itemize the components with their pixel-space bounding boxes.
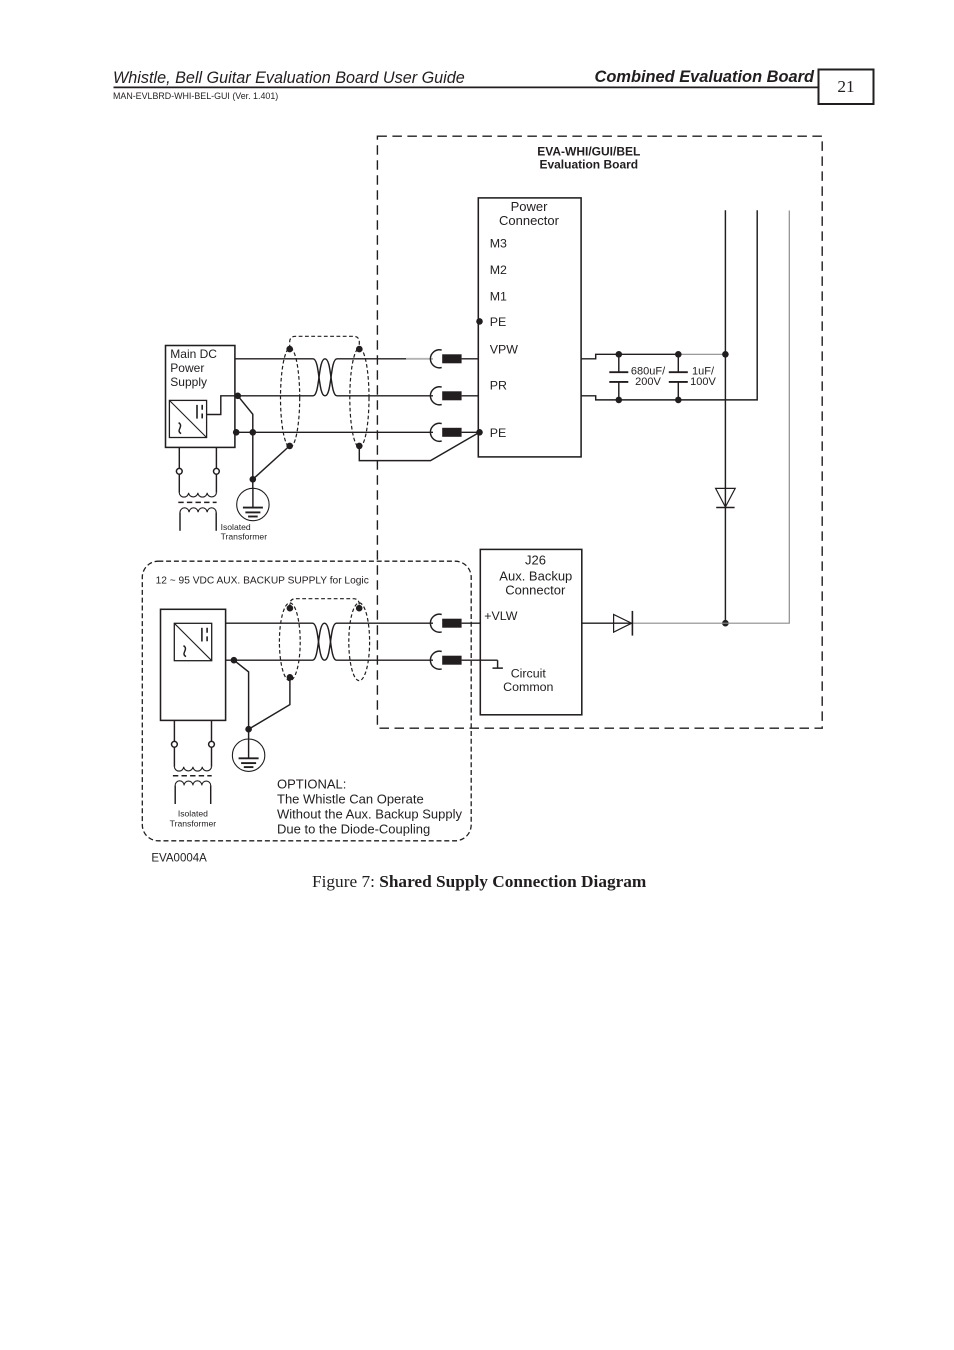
wire PE [235, 431, 480, 433]
cable shield left oval aux [279, 603, 300, 681]
pin +VLW [484, 609, 517, 623]
ferrite clamp +VLW [430, 614, 461, 632]
svg-text:Evaluation Board: Evaluation Board [539, 158, 638, 172]
aux backup label [156, 575, 369, 586]
svg-text:21: 21 [837, 77, 854, 96]
protective earth symbol main [237, 488, 269, 520]
capacitor C1 value [631, 365, 666, 388]
ferrite clamp VPW [430, 350, 461, 368]
page number [837, 77, 854, 96]
svg-text:Transformer: Transformer [170, 818, 217, 828]
optional note [277, 777, 462, 837]
svg-text:Common: Common [503, 680, 553, 694]
protective earth symbol aux [232, 739, 264, 772]
circuit common label [503, 667, 553, 695]
svg-text:Figure 7: Shared Supply Connec: Figure 7: Shared Supply Connection Diagr… [312, 872, 647, 891]
svg-text:200V: 200V [635, 376, 661, 388]
svg-text:Main DC: Main DC [170, 347, 217, 361]
ground branch wire aux [234, 660, 252, 739]
twisted pair aux [313, 623, 337, 660]
diode D1 [716, 488, 736, 507]
bus wire VPW node [722, 210, 729, 626]
shield node dots aux [287, 605, 363, 681]
pin PE2 [490, 426, 507, 440]
diode D2 [614, 611, 633, 636]
rail junction dots [616, 351, 729, 403]
pin PR [490, 379, 507, 393]
svg-text:Whistle, Bell Guitar Evaluatio: Whistle, Bell Guitar Evaluation Board Us… [113, 69, 465, 87]
pin M3 [490, 236, 507, 250]
ferrite clamp common [430, 651, 461, 669]
twisted pair main [313, 359, 337, 396]
shield bracket aux [290, 599, 359, 608]
J26 connector box [480, 549, 582, 714]
svg-text:Connector: Connector [499, 213, 560, 228]
main dc power supply label [170, 347, 217, 389]
svg-text:PE: PE [490, 426, 507, 440]
wire +VLW aux [226, 622, 481, 624]
wire circuit common aux [226, 659, 498, 661]
header document number [113, 91, 278, 101]
cable shield right oval aux [349, 603, 370, 681]
junction PE nodes [233, 429, 256, 436]
shield to PE wire [359, 432, 479, 460]
shield drain wire aux [249, 677, 290, 729]
sense wire grey [633, 211, 790, 624]
junction aux return node [231, 657, 238, 664]
aux backup dashed enclosure [142, 561, 471, 841]
capacitor C2 value [690, 365, 716, 388]
svg-text:Due to the Diode-Coupling: Due to the Diode-Coupling [277, 821, 430, 836]
svg-text:OPTIONAL:: OPTIONAL: [277, 777, 346, 792]
svg-text:Isolated: Isolated [221, 522, 251, 532]
header rule [114, 86, 819, 88]
svg-text:Combined Evaluation Board: Combined Evaluation Board [595, 68, 815, 86]
cable shield left oval main [281, 348, 300, 447]
pin PE [490, 315, 507, 329]
svg-text:M3: M3 [490, 236, 507, 250]
header section title [595, 68, 815, 86]
main dc power supply box [166, 346, 235, 448]
svg-text:The Whistle Can Operate: The Whistle Can Operate [277, 792, 424, 807]
svg-text:+VLW: +VLW [484, 609, 517, 623]
wire PR [207, 396, 479, 415]
ac-dc converter symbol U2 [174, 623, 211, 660]
ground branch wire main [238, 396, 256, 489]
power connector title [499, 199, 560, 228]
power connector box [478, 198, 581, 457]
wire PR to capacitor rail and bus [581, 210, 757, 400]
svg-text:EVA-WHI/GUI/BEL: EVA-WHI/GUI/BEL [537, 144, 640, 158]
svg-text:M1: M1 [490, 290, 507, 304]
page number box [819, 70, 874, 105]
figure caption [312, 872, 647, 891]
svg-text:100V: 100V [690, 376, 716, 388]
svg-text:Aux. Backup: Aux. Backup [499, 568, 572, 583]
junction PR node [235, 393, 242, 400]
isolated transformer aux label [170, 809, 217, 829]
shield drain wire left [253, 446, 290, 479]
shield bracket main [290, 336, 360, 348]
isolated transformer main label [221, 522, 268, 542]
pin PE2 dot [476, 429, 483, 436]
svg-text:PR: PR [490, 379, 507, 393]
drawing number [151, 853, 207, 865]
aux supply box [161, 609, 226, 720]
svg-text:Power: Power [170, 361, 204, 375]
capacitor C2 [669, 354, 688, 400]
svg-text:Transformer: Transformer [221, 532, 268, 542]
EVA board dashed enclosure [377, 136, 822, 728]
EVA board title [537, 144, 640, 171]
J26 title [499, 553, 572, 598]
svg-text:Connector: Connector [505, 583, 566, 598]
svg-text:12 ~ 95 VDC AUX. BACKUP SUPPLY: 12 ~ 95 VDC AUX. BACKUP SUPPLY for Logic [156, 575, 369, 586]
capacitor C1 [609, 354, 628, 400]
svg-text:Power: Power [511, 199, 549, 214]
pin M1 [490, 290, 507, 304]
pin M2 [490, 263, 507, 277]
svg-text:M2: M2 [490, 263, 507, 277]
svg-text:Circuit: Circuit [511, 667, 547, 681]
header title [113, 69, 465, 87]
svg-text:Isolated: Isolated [178, 809, 208, 819]
isolated transformer aux [172, 720, 215, 804]
wire J26 to diode D2 [582, 622, 633, 624]
ferrite clamp PR [430, 387, 461, 405]
pin PE dot [476, 318, 483, 325]
shield node dots main [286, 346, 362, 449]
signal ground tick [493, 660, 503, 668]
svg-text:J26: J26 [525, 553, 546, 568]
ac-dc converter symbol U1 [169, 400, 206, 437]
wire VPW to capacitor rail [581, 354, 725, 359]
svg-text:MAN-EVLBRD-WHI-BEL-GUI (Ver. 1: MAN-EVLBRD-WHI-BEL-GUI (Ver. 1.401) [113, 91, 278, 101]
svg-text:VPW: VPW [490, 343, 519, 357]
svg-text:EVA0004A: EVA0004A [151, 853, 207, 865]
pin VPW [490, 343, 519, 357]
cable shield right oval main [350, 348, 369, 447]
svg-text:Supply: Supply [170, 375, 207, 389]
ferrite clamp PE [430, 423, 461, 441]
svg-text:Without the Aux. Backup Supply: Without the Aux. Backup Supply [277, 807, 462, 822]
svg-text:PE: PE [490, 315, 507, 329]
wire VPW [235, 358, 478, 360]
isolated transformer main [176, 447, 219, 530]
